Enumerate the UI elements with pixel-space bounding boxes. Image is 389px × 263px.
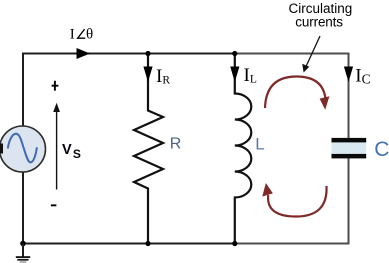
- svg-text:I: I: [70, 27, 75, 43]
- svg-text:C: C: [374, 138, 389, 161]
- svg-text:θ: θ: [86, 27, 93, 43]
- svg-text:R: R: [170, 135, 182, 152]
- svg-text:V: V: [62, 142, 72, 158]
- svg-text:L: L: [255, 135, 264, 154]
- svg-text:Circulating: Circulating: [289, 1, 353, 16]
- svg-text:currents: currents: [295, 15, 343, 30]
- svg-text:S: S: [73, 147, 81, 161]
